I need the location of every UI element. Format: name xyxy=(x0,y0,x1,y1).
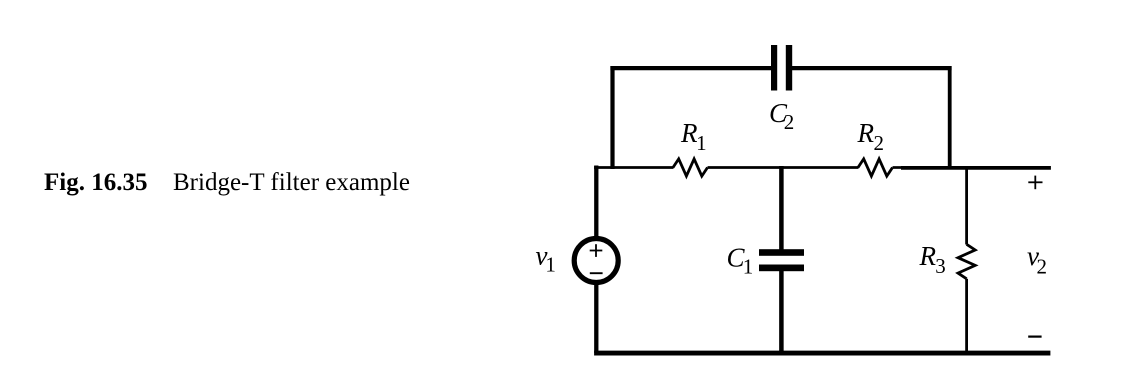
wire main horizontal right of R2 thin stub xyxy=(893,166,903,169)
wire main horizontal left of R1 xyxy=(594,166,673,169)
wire bridge left vertical xyxy=(610,66,614,169)
wire middle vertical below C1 xyxy=(779,271,784,354)
voltage source plus sign horizontal xyxy=(590,250,603,252)
svg-text:1: 1 xyxy=(696,131,707,155)
svg-text:2: 2 xyxy=(784,110,795,134)
resistor R3 zigzag xyxy=(958,244,975,278)
wire main horizontal between R1 and R2 xyxy=(708,166,859,169)
wire output top thick segment xyxy=(901,166,1051,170)
capacitor C1 top plate xyxy=(759,249,804,256)
voltage source plus sign vertical xyxy=(595,244,597,257)
wire middle vertical above C1 xyxy=(779,166,784,250)
resistor R1 zigzag xyxy=(673,159,708,176)
svg-text:R: R xyxy=(919,241,937,271)
svg-text:2: 2 xyxy=(874,131,885,155)
svg-text:1: 1 xyxy=(743,254,754,278)
wire bridge right vertical xyxy=(948,66,952,170)
svg-text:2: 2 xyxy=(1037,254,1048,278)
resistor R2 zigzag xyxy=(858,159,893,176)
wire right vertical below R3 xyxy=(965,279,968,354)
capacitor C2 right plate xyxy=(786,45,792,91)
svg-text:3: 3 xyxy=(935,254,946,278)
voltage source v1 circle xyxy=(574,239,618,283)
wire top bridge right segment xyxy=(792,66,952,70)
capacitor C2 left plate xyxy=(771,45,777,91)
output minus sign xyxy=(1028,336,1041,338)
output plus sign vertical xyxy=(1034,176,1036,190)
svg-text:1: 1 xyxy=(545,253,556,277)
caption figure number xyxy=(44,170,147,195)
wire bottom horizontal xyxy=(594,351,1050,356)
svg-text:R: R xyxy=(857,118,875,148)
caption title xyxy=(173,170,410,195)
capacitor C1 bottom plate xyxy=(759,265,804,272)
wire left vertical above source xyxy=(594,166,598,239)
output plus sign horizontal xyxy=(1028,181,1042,183)
wire left vertical below source xyxy=(594,283,598,353)
wire top bridge left segment xyxy=(610,66,772,70)
wire right vertical above R3 xyxy=(965,166,968,245)
voltage source minus sign xyxy=(590,272,603,274)
